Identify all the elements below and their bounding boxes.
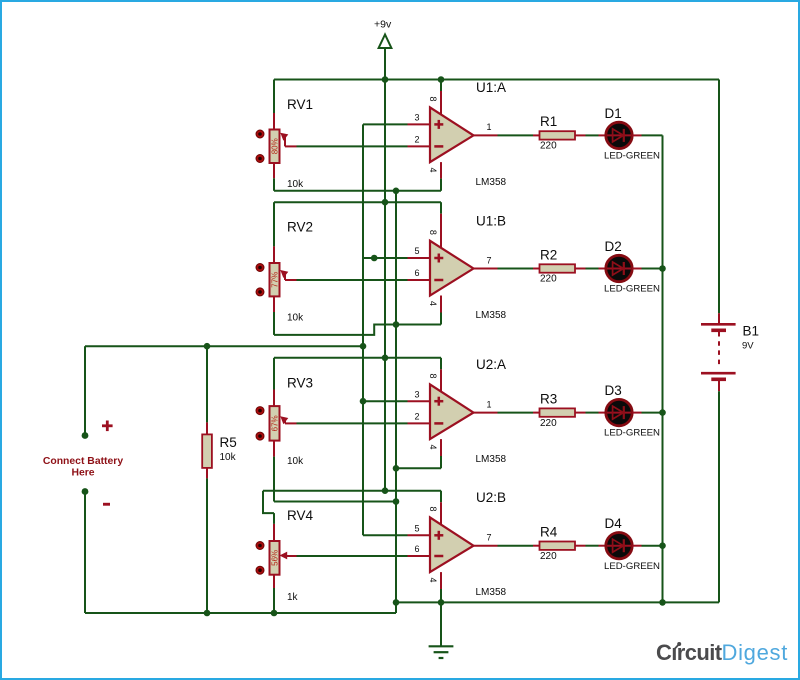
pin U1:B pin 4 lead: [440, 296, 442, 313]
wire U2:A pin 3 (from bus): [363, 400, 408, 402]
pin D4 anode lead: [599, 545, 606, 547]
node ground rail / U2:B pin4 + ground symbol: [438, 599, 445, 606]
label pin number 8: [428, 230, 438, 235]
battery polarity mark +: [102, 421, 113, 432]
wiper arrow RV4: [280, 552, 288, 560]
potentiometer RV3 10k: [270, 406, 280, 441]
RV2 increment button: [256, 264, 264, 272]
wire R4 to D4: [586, 545, 599, 547]
wire U2:B pin 8 from top net: [440, 491, 442, 503]
wiper arrow RV1: [280, 133, 288, 147]
pin D1 anode lead: [599, 134, 606, 136]
label pin number 4: [428, 167, 438, 172]
wire U1:A output to R1: [498, 134, 534, 136]
wire bottom ground rail (left): [85, 612, 396, 614]
label pin number 2: [414, 135, 419, 145]
label D1 part: [604, 151, 660, 162]
potentiometer RV4 1k: [270, 541, 280, 575]
wiper arrow RV2: [280, 270, 288, 280]
label pin number 5: [414, 524, 419, 534]
pin U1:A 2 lead: [408, 145, 431, 147]
wire +9v vertical bus x=385: [384, 80, 386, 491]
pin RV1 terminal 1 lead: [273, 113, 275, 130]
pin R3 lead 1: [533, 412, 540, 414]
label RV3 designator: [287, 375, 313, 390]
wire D2 cathode to LED rail: [642, 268, 663, 270]
wire R3 to D3: [586, 412, 599, 414]
wire U2:A output to R3: [498, 412, 534, 414]
wire U1:B pin4 / RV2 bottom net (jog): [274, 325, 441, 335]
node +9v tap for U2:B: [382, 487, 389, 494]
label U2:A designator: [476, 357, 506, 372]
wire U1:B pin 8 from top net: [440, 202, 442, 214]
op-amp U1:A LM358: [430, 91, 474, 162]
RV1 increment button: [256, 130, 264, 138]
label U1:A designator: [476, 80, 506, 95]
node bus / U2:A pin 3 junction: [360, 398, 367, 405]
wire U1:B pin 5 (from bus): [363, 257, 408, 259]
pin U1:B 6 lead: [408, 279, 431, 281]
node ground rail / bus junction: [393, 599, 400, 606]
node +9v tap for U2:A: [382, 355, 389, 362]
wire RV4 top lead: [273, 513, 275, 524]
pin U2:A output 1 lead: [474, 412, 498, 414]
wire RV4 wiper to U2:B pin 6: [297, 555, 408, 557]
wire R1 to D1: [586, 134, 599, 136]
battery polarity mark -: [103, 503, 110, 506]
wire RV4 top / U2:B pin 8 net: [263, 490, 441, 492]
wire +9v top rail: [274, 79, 719, 81]
label pin number 1: [487, 399, 492, 409]
label D4 part: [604, 561, 660, 572]
label B1 designator: [743, 323, 760, 338]
wire RV1 bottom: [273, 178, 275, 191]
label pin number 4: [428, 444, 438, 449]
wire R5 top: [206, 346, 208, 422]
ground symbol: [429, 602, 454, 658]
pin R2 lead 1: [533, 268, 540, 270]
pin R5 lead 2: [206, 468, 208, 479]
resistor R5 10k: [202, 434, 212, 468]
wire LED cathode rail: [662, 135, 664, 602]
RV3 decrement button: [256, 432, 264, 440]
potentiometer RV2 10k: [270, 263, 280, 296]
label D3 designator: [605, 383, 622, 398]
label pin number 6: [414, 544, 419, 554]
resistor R2 220: [540, 264, 576, 272]
logo accent over i: [666, 636, 690, 654]
node ground rail / R5 junction: [204, 610, 211, 617]
label D3 part: [604, 428, 660, 439]
label pin number 7: [487, 255, 492, 265]
wire U1:A pin 3 (from bus): [363, 123, 408, 125]
label pin number 5: [414, 246, 419, 256]
wire U1:A pin 8 from top net: [440, 80, 442, 92]
wire RV1 left vertical: [273, 80, 275, 114]
wire R5 bottom: [206, 478, 208, 613]
RV2 decrement button: [256, 288, 264, 296]
pin U2:B pin 4 lead: [440, 572, 442, 589]
label pin number 2: [414, 412, 419, 422]
label U1:B part LM358: [476, 310, 507, 321]
LED D2 LED-GREEN: [606, 255, 632, 281]
wire RV3 top / U2:A pin 8 net: [274, 357, 441, 359]
pin RV4 terminal 2 lead: [273, 575, 275, 588]
wire RV2 top / U1:B pin 8 net: [274, 201, 441, 203]
node on U1:B pin 5 wire: [371, 255, 378, 262]
pin R4 lead 1: [533, 545, 540, 547]
node ground bus junction RV3 bottom: [393, 498, 400, 505]
resistor R1 220: [540, 131, 576, 139]
pin U1:B output 7 lead: [474, 268, 498, 270]
wire R2 to D2: [586, 268, 599, 270]
pin RV2 terminal 2 lead: [273, 296, 275, 312]
op-amp U2:A LM358: [430, 369, 474, 439]
pin U2:A 2 lead: [408, 422, 431, 424]
label RV1 designator: [287, 97, 313, 112]
pin R4 lead 2: [575, 545, 586, 547]
wire U2:A pin 4 to ground net: [440, 456, 442, 468]
wire U2:B output to R4: [498, 545, 534, 547]
CircuitDigest logo: [656, 642, 788, 664]
label R1 value 220: [540, 141, 557, 152]
LED D1 LED-GREEN: [606, 122, 632, 148]
label pin number 3: [414, 389, 419, 399]
label R2 value 220: [540, 274, 557, 285]
label R3 designator: [540, 391, 557, 406]
wiper arrow RV3: [280, 416, 288, 424]
wire U1:B pin 4 to bottom net: [440, 313, 442, 325]
pin RV3 terminal 2 lead: [273, 441, 275, 457]
pin U1:A pin 4 lead: [440, 162, 442, 179]
label RV4 designator: [287, 508, 314, 523]
label Connect Battery Here line 2: [71, 468, 94, 479]
pin R1 lead 1: [533, 134, 540, 136]
power symbol +9v: [374, 19, 392, 80]
label R4 designator: [540, 525, 558, 540]
RV4 increment button: [256, 542, 264, 550]
label D2 designator: [605, 239, 622, 254]
label U2:B designator: [476, 490, 506, 505]
pin U1:A output 1 lead: [474, 134, 498, 136]
pin U2:B output 7 lead: [474, 545, 498, 547]
pin RV4 wiper lead: [285, 555, 297, 557]
node +9v tap for U1:B: [382, 199, 389, 206]
wire U1:A pin4 / RV1 bottom net: [274, 190, 441, 192]
pin U2:B 6 lead: [408, 555, 431, 557]
RV3 increment button: [256, 407, 264, 415]
pin U1:A 3 lead: [408, 123, 431, 125]
pin U1:B 5 lead: [408, 257, 431, 259]
wire U1:A pin 4 to bottom net: [440, 179, 442, 191]
wire D1 cathode to LED rail: [642, 134, 663, 136]
op-amp U1:B LM358: [430, 214, 474, 296]
label R2 designator: [540, 247, 557, 262]
label U2:A part LM358: [476, 454, 507, 465]
wire battery positive sense line: [85, 345, 363, 347]
pin D3 cathode lead: [632, 412, 641, 414]
node LED rail / D4 junction: [659, 542, 666, 549]
pin RV2 terminal 1 lead: [273, 246, 275, 263]
wire RV4 top jog: [263, 491, 274, 513]
pin U2:B 5 lead: [408, 534, 431, 536]
node ground bus top junction: [393, 188, 400, 195]
pin R2 lead 2: [575, 268, 586, 270]
pin RV1 terminal 2 lead: [273, 163, 275, 178]
label R3 value 220: [540, 418, 557, 429]
node LED rail / D3 junction: [659, 409, 666, 416]
label U1:A part LM358: [476, 177, 507, 188]
node +9v rail / U1:A pin 8 junction: [438, 76, 445, 83]
wire RV3 bottom vertical: [273, 457, 275, 502]
wire U1:B output to R2: [498, 268, 534, 270]
label D4 designator: [605, 516, 623, 531]
pin D4 cathode lead: [632, 545, 641, 547]
label pin number 8: [428, 96, 438, 101]
pin R5 lead 1: [206, 422, 208, 434]
label pin number 6: [414, 268, 419, 278]
label R5 value 10k: [220, 452, 237, 463]
node LED rail / D2 junction: [659, 265, 666, 272]
label pin number 8: [428, 506, 438, 511]
label R1 designator: [540, 114, 557, 129]
wire RV2 left vertical: [273, 202, 275, 246]
wire battery rail bottom: [718, 391, 720, 602]
potentiometer RV1 10k: [270, 130, 280, 164]
pin RV3 terminal 1 lead: [273, 390, 275, 407]
pin D1 cathode lead: [632, 134, 641, 136]
resistor R4 220: [540, 542, 576, 550]
wire RV3 left vertical: [273, 358, 275, 390]
label pin number 4: [428, 577, 438, 582]
pin RV2 wiper lead: [285, 279, 297, 281]
label pin number 1: [487, 122, 492, 132]
wire D4 cathode to LED rail: [642, 545, 663, 547]
node ground bus junction stage 2: [393, 321, 400, 328]
label R4 value 220: [540, 551, 557, 562]
wire U2:A pin 8 from top net: [440, 358, 442, 370]
RV1 decrement button: [256, 155, 264, 163]
label R5 designator: [220, 435, 237, 450]
node sense line / R5 junction: [204, 343, 211, 350]
label U1:B designator: [476, 214, 506, 229]
pin D2 anode lead: [599, 268, 606, 270]
pin D3 anode lead: [599, 412, 606, 414]
wire U2:A pin 4 net: [396, 467, 441, 469]
wire D3 cathode to LED rail: [642, 412, 663, 414]
pin D2 cathode lead: [632, 268, 641, 270]
battery B1 9V: [701, 313, 736, 391]
wire battery-sense vertical bus x=363: [362, 124, 364, 535]
node sense line / bus junction: [360, 343, 367, 350]
label pin number 4: [428, 301, 438, 306]
label D2 part: [604, 284, 660, 295]
node ground rail / LED rail junction: [659, 599, 666, 606]
RV4 decrement button: [256, 566, 264, 574]
label U2:B part LM358: [476, 587, 507, 598]
wire RV3 bottom to ground bus: [274, 501, 396, 503]
pin R3 lead 2: [575, 412, 586, 414]
wire bottom ground rail (right): [396, 601, 719, 603]
wire RV1 wiper to U1:A pin 2: [297, 145, 408, 147]
node ground bus junction U2:A pin4: [393, 465, 400, 472]
wire battery rail top: [718, 80, 720, 314]
wire RV4 bottom: [273, 588, 275, 613]
label RV3 value: [287, 456, 304, 467]
label pin number 8: [428, 373, 438, 378]
label B1 value 9V: [742, 341, 754, 352]
label RV2 designator: [287, 220, 313, 235]
op-amp U2:B LM358: [430, 502, 474, 572]
label Connect Battery Here line 1: [43, 456, 123, 467]
wire battery + terminal drop: [84, 346, 86, 435]
label RV4 value 1k: [287, 592, 299, 603]
node battery + open terminal: [82, 432, 89, 439]
wire battery - terminal drop: [84, 492, 86, 614]
pin RV1 wiper lead: [285, 145, 297, 147]
wire RV3 wiper to U2:A pin 2: [297, 422, 408, 424]
label pin number 3: [414, 113, 419, 123]
wire RV2 wiper to U1:B pin 6: [297, 279, 408, 281]
wire ground vertical bus x=396: [395, 191, 397, 603]
node +9v rail / power stem junction: [382, 76, 389, 83]
label pin number 7: [487, 533, 492, 543]
pin R1 lead 2: [575, 134, 586, 136]
label RV2 value: [287, 312, 304, 323]
node battery - open terminal: [82, 488, 89, 495]
LED D3 LED-GREEN: [606, 399, 632, 425]
wire RV2 bottom: [273, 312, 275, 335]
wire U2:B pin 5 (from bus): [363, 534, 408, 536]
node RV4 bottom on ground rail: [271, 610, 278, 617]
wire ground bus link: [395, 602, 397, 613]
label D1 designator: [605, 106, 622, 121]
pin RV3 wiper lead: [285, 422, 297, 424]
resistor R3 220: [540, 408, 576, 416]
pin U2:A 3 lead: [408, 400, 431, 402]
pin RV4 terminal 1 lead: [273, 524, 275, 541]
label RV1 value: [287, 179, 304, 190]
pin U2:A pin 4 lead: [440, 439, 442, 456]
LED D4 LED-GREEN: [606, 533, 632, 559]
wire U2:B pin 4 to ground rail: [440, 589, 442, 602]
